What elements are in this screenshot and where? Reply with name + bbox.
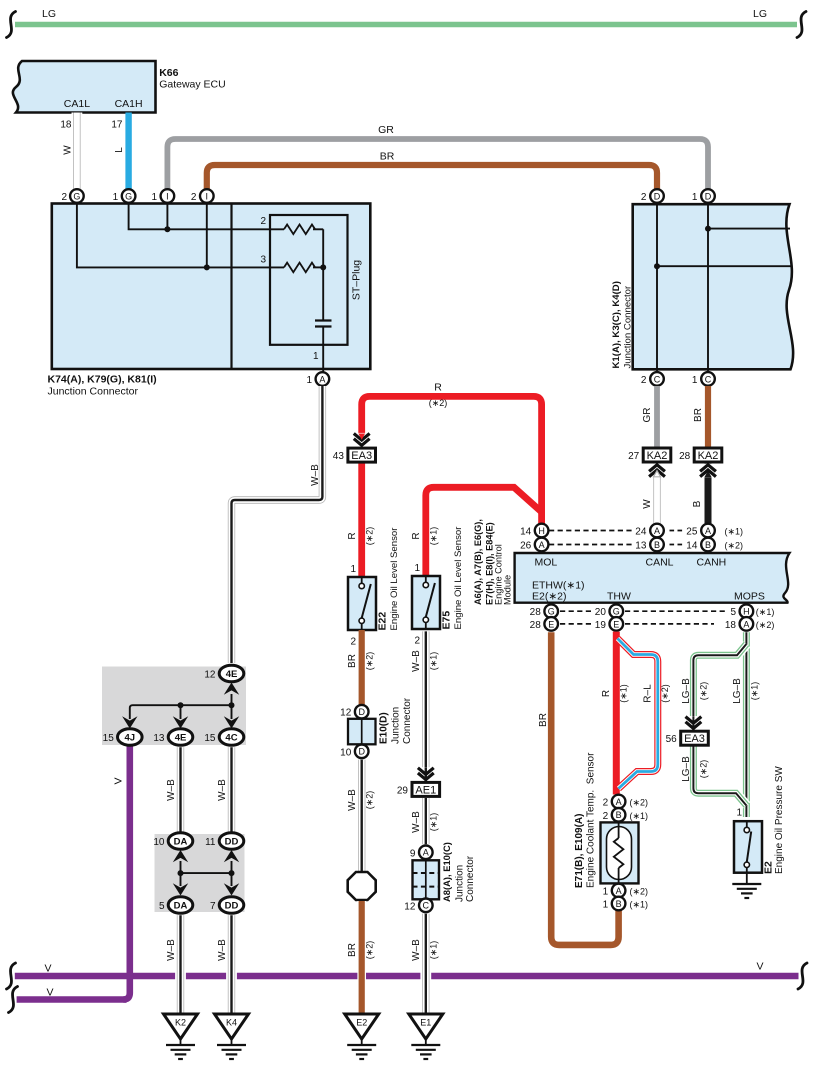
arrow into 10(DA) [180,861,182,873]
inner wire from 2(G) to resistor 3 [77,204,284,268]
svg-text:18: 18 [725,620,737,631]
svg-text:1: 1 [350,564,356,575]
svg-text:(∗2): (∗2) [699,760,709,779]
svg-text:C: C [654,374,661,384]
svg-text:Junction: Junction [455,865,466,902]
svg-text:14: 14 [686,541,698,552]
connector pin 10(D) [355,745,369,759]
svg-text:V: V [756,961,763,973]
svg-text:E: E [548,619,554,629]
ground E1 [409,1014,443,1039]
bus line in gray box [130,705,232,719]
break mark LG right [797,12,806,38]
connector 11(DD) [219,833,244,850]
svg-text:R–L: R–L [643,684,654,703]
ground below switch E2 [746,873,748,884]
ECM pin 13(B) [650,538,664,552]
svg-text:(∗2): (∗2) [630,887,649,897]
svg-text:(∗1): (∗1) [429,652,439,671]
svg-text:W–B: W–B [411,650,422,672]
svg-text:EA3: EA3 [684,733,705,745]
svg-text:2: 2 [603,811,609,822]
junction dot [229,870,235,876]
connector 15(4C) [219,729,244,746]
svg-text:BR: BR [693,408,704,422]
pin 1(D) [701,189,715,203]
svg-text:(∗2): (∗2) [429,398,448,408]
svg-text:B: B [692,500,703,507]
svg-text:R: R [601,690,612,697]
ECM pin 28(E) [544,617,558,631]
svg-text:2: 2 [641,375,647,386]
svg-text:Module: Module [503,575,513,605]
svg-text:V: V [113,777,125,784]
connector 28 KA2 [694,448,722,462]
connector 29 AE1 [412,782,440,796]
svg-text:LG–B: LG–B [681,756,692,782]
ECM pin 18(A) [740,617,754,631]
svg-text:W–B: W–B [217,939,228,961]
svg-text:LG–B: LG–B [732,678,743,704]
ground K4 [215,1014,249,1039]
connector 13(4E) [168,729,193,746]
svg-text:28: 28 [679,451,691,462]
svg-text:L: L [114,147,125,153]
chevron arrows below KA2 right [698,464,718,478]
svg-text:Gateway ECU: Gateway ECU [159,79,226,91]
wire W-B from pin A to connector 12(4E) [232,386,323,663]
svg-text:D: D [654,191,661,201]
svg-text:I: I [206,191,209,201]
junction dot [178,702,184,708]
svg-text:DD: DD [225,901,239,912]
arrow to 5(DA) [180,873,182,886]
gray connector-group box (DA/DD) [155,834,245,912]
dashed link 26(A)-13(B) [549,544,632,546]
ECM pin 20(G) [610,604,624,618]
svg-text:4E: 4E [226,669,238,680]
arrow to 7(DD) [231,873,233,886]
svg-text:CA1L: CA1L [64,98,90,110]
svg-text:BR: BR [347,943,358,957]
svg-text:E71(B), E109(A): E71(B), E109(A) [574,814,585,888]
svg-text:G: G [125,191,132,201]
wire R from ECM 19(E) to coolant sensor 2(A) [613,632,620,795]
connector 27 KA2 [643,448,671,462]
svg-text:1: 1 [313,351,319,362]
ECM pin 14(H) [535,524,549,538]
svg-text:AE1: AE1 [415,784,436,796]
wire R (*2) from E22 to ECM 14(H) [362,396,542,577]
wire GR from 2(C) to KA2 [654,386,660,448]
svg-text:C: C [705,374,712,384]
svg-text:4C: 4C [225,733,237,744]
svg-text:15: 15 [204,733,216,744]
svg-text:B: B [654,540,660,550]
switch E75 [425,576,427,582]
svg-text:G: G [73,191,80,201]
junction connector K74(A) K79(G) K81(I) box [52,204,371,370]
junction dot [229,702,235,708]
svg-text:C: C [423,901,430,911]
svg-text:10: 10 [340,747,352,758]
svg-text:GR: GR [378,124,394,136]
stub to 13(4E) [180,705,182,719]
svg-text:LG: LG [42,8,56,20]
svg-text:A: A [705,526,711,536]
svg-text:(∗1): (∗1) [756,607,775,617]
switch E2 Engine Oil Pressure SW box [734,821,762,873]
inner wire from 1(G) to resistor 2 [129,204,284,230]
junction connector A8(A) E10(C) box [413,860,440,899]
break mark LG left [7,12,16,38]
svg-text:KA2: KA2 [647,450,668,462]
svg-text:DD: DD [225,837,239,848]
wire BR (*2) from octagon to ground E2 [357,901,366,1014]
svg-text:13: 13 [635,541,647,552]
svg-text:13: 13 [153,733,165,744]
inner wire from 2(I) [206,204,208,268]
svg-text:1: 1 [692,375,698,386]
sensor E71(B) E109(A) box [601,822,639,883]
wire B from KA2 to ECM 25(A) [705,460,712,523]
svg-text:LG: LG [753,8,767,20]
svg-text:3: 3 [260,255,266,266]
svg-text:EA3: EA3 [351,450,372,462]
svg-text:28: 28 [530,620,542,631]
connector 5(DA) [168,897,193,914]
connector 56 EA3 [681,731,709,745]
svg-text:R: R [347,532,358,539]
svg-text:A8(A), E10(C): A8(A), E10(C) [441,842,452,902]
svg-text:B: B [616,899,622,909]
svg-text:(∗1): (∗1) [429,813,439,832]
svg-text:(∗1): (∗1) [630,900,649,910]
wire W-B 7(DD) to ground K4 [226,915,237,1014]
wire W-B (*1) from AE1 to 9(A) [420,798,431,844]
dashed link 14(H)-24(A) [549,530,632,532]
wire LG-B (*1) from ECM 18(A) to switch pin 1 [741,632,751,817]
svg-text:Junction: Junction [391,707,402,744]
dashed link 24(A)-25(A) [670,530,685,532]
svg-text:(∗1): (∗1) [429,941,439,960]
ground K2 [164,1014,198,1039]
svg-text:26: 26 [520,541,532,552]
wire capacitor to pin 1 [322,327,324,373]
svg-text:17: 17 [111,120,123,131]
svg-text:43: 43 [333,451,345,462]
svg-text:E: E [613,619,619,629]
pin 1(C) [701,372,715,386]
dashed link 19(E)-18(A) [625,623,714,625]
arrow to 15(4J) [122,716,137,728]
svg-text:W–B: W–B [166,779,177,801]
svg-text:A: A [743,619,749,629]
svg-text:9: 9 [410,848,416,859]
svg-text:(∗2): (∗2) [756,620,775,630]
ECM pin 14(B) [701,538,715,552]
connector pin 9(A) [419,846,433,860]
stub to 15(4C) [231,705,233,719]
svg-text:DA: DA [174,837,188,848]
svg-text:H: H [743,607,750,617]
capacitor in ST-Plug [315,319,332,321]
ECM pin 19(E) [610,617,624,631]
svg-text:4J: 4J [125,733,136,744]
svg-text:56: 56 [666,734,678,745]
svg-text:E2: E2 [763,861,775,874]
pin 2(C) [650,372,664,386]
arrow into 12(4E) [231,694,233,705]
svg-text:CA1H: CA1H [115,98,143,110]
dashed link 13(B)-14(B) [670,544,685,546]
svg-text:2: 2 [350,637,356,648]
svg-text:19: 19 [595,620,607,631]
inner branch from 1D to torn edge [708,228,790,230]
svg-text:7: 7 [210,901,216,912]
connector 10(DA) [168,833,193,850]
svg-text:B: B [705,540,711,550]
arrow into 11(DD) [231,861,233,873]
wire W from K66 pin 18 to junction 2(G) [72,113,83,190]
dashed link 20(G)-5(H) [625,610,727,612]
thermistor element [618,822,620,838]
pin 1(A) of ST-Plug [316,372,330,386]
wire W-B 13(4E) to 10(DA) [175,747,186,832]
svg-text:W–B: W–B [217,779,228,801]
resistor ST-plug pin2 [284,225,315,235]
svg-text:E2(∗2): E2(∗2) [532,591,566,603]
svg-text:2: 2 [191,192,197,203]
inner wire 2D-2C [656,204,658,372]
svg-text:1: 1 [113,192,119,203]
wire R-L (*2) loop [618,639,658,789]
svg-text:R: R [411,532,422,539]
sensor E22 box [348,577,376,630]
svg-text:(∗1): (∗1) [619,684,629,703]
sensor E75 box [412,576,440,629]
svg-text:1: 1 [603,887,609,898]
break mark V upper-right [798,963,807,989]
junction connector E10(D) box [348,719,376,745]
ECM pin 24(A) [650,524,664,538]
wire resistors to capacitor [322,229,324,320]
wire W from KA2 to ECM 24(A) [652,460,663,523]
svg-text:G: G [613,607,620,617]
svg-text:(∗1): (∗1) [630,811,649,821]
svg-text:DA: DA [174,901,188,912]
chevron arrows below KA2 left [647,464,667,478]
svg-text:Connector: Connector [465,855,476,902]
svg-text:2: 2 [61,192,67,203]
wire V vertical from connector 4J [123,744,130,1000]
svg-text:H: H [538,526,545,536]
svg-text:W: W [642,499,653,509]
svg-text:4E: 4E [175,733,187,744]
wire L from K66 pin 17 to junction 1(G) [125,113,131,190]
ECU K66 box [13,61,156,113]
svg-text:BR: BR [347,654,358,668]
chevron arrows above EA3 56 [683,716,703,731]
svg-text:A6(A), A7(B), E6(G),: A6(A), A7(B), E6(G), [473,519,483,605]
svg-text:1: 1 [603,900,609,911]
svg-text:2: 2 [414,636,420,647]
wire V bus lower + riser from 4J [17,996,127,1003]
svg-text:W–B: W–B [310,464,321,486]
svg-text:W–B: W–B [411,811,422,833]
svg-text:5: 5 [730,607,736,618]
wire GR from junction 1(I) to K1 1(D) [167,139,708,190]
svg-text:A: A [616,797,622,807]
svg-text:GR: GR [642,408,653,423]
junction dot [705,226,711,232]
inner wire from 1(I) [166,204,168,230]
break mark V lower-left [9,987,18,1013]
svg-text:K2: K2 [175,1018,186,1028]
svg-text:CANL: CANL [646,557,674,569]
svg-text:THW: THW [607,591,631,603]
svg-text:(∗2): (∗2) [725,541,744,551]
resistor ST-plug pin3 [284,263,315,273]
pin 2(G) [70,189,84,203]
svg-text:A: A [319,374,325,384]
svg-text:(∗1): (∗1) [725,527,744,537]
wire W-B 15(4C) to 11(DD) [226,747,237,832]
svg-text:1: 1 [306,375,312,386]
svg-text:BR: BR [380,151,395,163]
svg-text:K1(A), K3(C), K4(D): K1(A), K3(C), K4(D) [611,281,622,368]
svg-text:(∗1): (∗1) [429,527,439,546]
inner wire 1D-1C [707,204,709,372]
svg-text:E22: E22 [377,612,389,631]
coolant sensor pins 2(A) 2(B) [612,795,626,809]
coolant sensor pins 1(A) 1(B) [612,884,626,898]
svg-text:ST–Plug: ST–Plug [351,260,363,300]
gray connector-group box (4J/4E/4C) [102,667,246,746]
switch E22 [361,577,363,583]
svg-text:18: 18 [60,120,72,131]
pin 1(I) [161,189,175,203]
svg-text:Junction Connector: Junction Connector [623,285,634,368]
svg-text:28: 28 [530,607,542,618]
svg-text:12: 12 [204,670,216,681]
svg-text:1: 1 [736,808,742,819]
ST-Plug inner box [270,215,348,345]
svg-text:(∗2): (∗2) [699,682,709,701]
svg-text:1: 1 [414,563,420,574]
svg-text:(∗2): (∗2) [630,798,649,808]
break mark V upper-left [7,963,16,989]
svg-text:(∗1): (∗1) [750,682,760,701]
svg-text:12: 12 [404,901,416,912]
ECM A6(A).. box [515,553,790,603]
svg-text:I: I [166,191,169,201]
svg-text:K74(A), K79(G), K81(I): K74(A), K79(G), K81(I) [48,374,157,386]
svg-text:D: D [358,707,365,717]
junction dot [178,870,184,876]
pin 1(G) [122,189,136,203]
svg-text:Connector: Connector [402,697,413,744]
svg-text:A: A [616,886,622,896]
ECM pin 26(A) [535,538,549,552]
wire W-B (*1) from 12(C) to ground E1 [420,914,431,1014]
svg-text:1: 1 [151,192,157,203]
junction connector K1(A) K3(C) K4(D) box [633,204,793,369]
svg-text:E10(D): E10(D) [379,712,390,744]
wire BR from E22 pin 2 to 12(D) [359,630,365,705]
svg-text:15: 15 [103,733,115,744]
connector 12(4E) [219,665,244,682]
pin 2(I) [200,189,214,203]
svg-text:25: 25 [686,527,698,538]
wire R (*1) from E75 to ECM 14(H) [426,487,542,576]
thermistor capsule [607,827,632,880]
svg-text:E75: E75 [441,611,453,630]
svg-text:W–B: W–B [347,789,358,811]
svg-text:W: W [63,145,74,155]
svg-text:KA2: KA2 [698,450,719,462]
svg-text:Junction Connector: Junction Connector [48,386,139,398]
svg-text:E1: E1 [420,1018,431,1028]
shield octagon splice [348,872,376,900]
chevron arrows above EA3 [352,433,372,448]
svg-text:BR: BR [538,713,549,727]
svg-text:A: A [423,848,429,858]
svg-text:20: 20 [595,607,607,618]
ECM pin 5(H) [740,604,754,618]
svg-text:2: 2 [641,192,647,203]
connector 7(DD) [219,897,244,914]
junction dot [654,263,660,269]
svg-text:11: 11 [205,837,216,848]
svg-text:(∗2): (∗2) [365,941,375,960]
ECM pin 25(A) [701,524,715,538]
svg-text:CANH: CANH [697,557,727,569]
svg-text:5: 5 [159,901,165,912]
svg-text:V: V [46,987,53,999]
svg-text:(∗2): (∗2) [660,684,670,703]
connector pin 12(D) [355,705,369,719]
svg-text:Engine Oil Pressure SW: Engine Oil Pressure SW [774,766,785,874]
svg-text:(∗2): (∗2) [365,652,375,671]
svg-text:MOL: MOL [535,557,558,569]
svg-text:29: 29 [397,785,409,796]
svg-text:B: B [616,810,622,820]
svg-text:1: 1 [692,192,698,203]
svg-text:A: A [539,540,545,550]
svg-text:G: G [548,607,555,617]
wire LG-B (*2) branch through EA3 56 [693,644,746,806]
svg-text:D: D [358,747,365,757]
connector 43 EA3 [348,448,376,462]
svg-text:E2: E2 [356,1018,367,1028]
svg-text:(∗2): (∗2) [365,527,375,546]
svg-text:Engine Oil Level Sensor: Engine Oil Level Sensor [453,526,464,630]
svg-text:2: 2 [260,216,266,227]
ECM pin 28(G) [544,604,558,618]
svg-text:R: R [434,382,442,394]
pin 2(D) [650,189,664,203]
wire BR from ECM 28(E) to coolant sensor 1(B) [551,632,618,945]
connector 15(4J) [118,729,143,746]
junction dot [320,264,326,270]
junction dot [204,264,210,270]
svg-text:MOPS: MOPS [734,591,765,603]
svg-text:W–B: W–B [411,939,422,961]
wire W-B 5(DA) to ground K2 [175,915,186,1014]
svg-text:24: 24 [635,527,647,538]
cross link DA-DD [181,872,232,874]
